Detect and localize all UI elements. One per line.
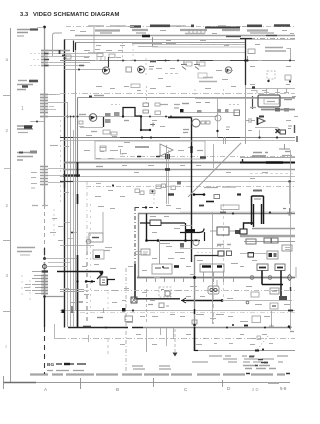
connector ladder 2 pins bbox=[40, 167, 48, 185]
function block box bbox=[95, 141, 205, 159]
transistor Q4 circle bbox=[192, 119, 200, 127]
left label block 4 blob bbox=[30, 151, 37, 154]
IC right label bbox=[284, 99, 292, 101]
dot y186 x113 bbox=[112, 184, 114, 186]
blobs on y213 bbox=[220, 212, 226, 214]
dark blob right y194 bbox=[237, 193, 241, 195]
left label block 4 dark dot bbox=[19, 152, 23, 154]
junction dot y296 bbox=[43, 295, 46, 298]
comp L dot bbox=[289, 80, 291, 82]
black corner wire right bbox=[244, 223, 254, 229]
dots on bottom edge bbox=[105, 327, 107, 329]
dash vertical x223 top bbox=[223, 89, 225, 98]
dash vertical x87 dark part bbox=[86, 240, 88, 324]
wire y127 bbox=[80, 127, 103, 129]
transistor circle x196 y242 bbox=[193, 240, 199, 246]
top text band row1 gray bbox=[88, 25, 226, 27]
corner to y350 wire bbox=[195, 350, 199, 352]
IC rect inner mark bbox=[92, 237, 99, 239]
label LP bbox=[78, 301, 83, 303]
label Hth hr on bottom edge bbox=[83, 326, 91, 328]
gray vertical x212 bbox=[212, 212, 214, 324]
black bar 1 bbox=[202, 265, 211, 267]
connector bus x44.4 dark segment bbox=[44, 248, 46, 255]
IC label IC201 bbox=[94, 95, 104, 97]
left label block 3 dark blob bbox=[29, 80, 38, 83]
svg-text:A: A bbox=[44, 387, 48, 392]
tiny labels scatter lower right bbox=[154, 244, 290, 322]
staircase black trace bbox=[123, 108, 150, 131]
vertical x146 dash bbox=[145, 58, 147, 76]
hatched IC box 1 bbox=[105, 113, 111, 117]
vertical pair x168 bbox=[168, 150, 170, 204]
wire y350.5 bbox=[195, 350, 295, 352]
bus y312 dashdot bbox=[60, 312, 295, 314]
comp L right bbox=[285, 75, 291, 80]
bus y116 bbox=[141, 116, 217, 118]
thick gray y228.5 bbox=[252, 228, 295, 230]
comp box x171 y186 bbox=[171, 186, 176, 190]
caption text mid1 bbox=[132, 366, 145, 369]
svg-text:C: C bbox=[184, 387, 188, 392]
black corner from box G bbox=[107, 280, 115, 286]
resistor box x143 y104 bbox=[143, 103, 149, 107]
transistor Q2 circle bbox=[138, 66, 145, 73]
TB box bbox=[214, 195, 220, 199]
dash vertical x30 bbox=[29, 280, 31, 300]
gray band y290 left bbox=[60, 290, 84, 292]
x72 dark segment bbox=[71, 306, 73, 313]
left label block 2 bbox=[17, 85, 33, 90]
wire y310 left cross tick bbox=[103, 308, 105, 313]
right edge dark marks bbox=[295, 125, 298, 142]
dashes y104 right bbox=[229, 104, 240, 106]
big rounded IC box right bbox=[258, 95, 280, 107]
dark blob x167 y169 bbox=[165, 168, 170, 171]
dotted diagonal leader bbox=[257, 336, 268, 350]
dot y310 x133 bbox=[132, 309, 134, 311]
box with black bars bbox=[200, 264, 224, 272]
comp boxes bottom row1 bbox=[135, 189, 140, 193]
video box top second line bbox=[180, 211, 295, 213]
tick x271 bbox=[269, 324, 274, 328]
black dot on edge x194 bbox=[193, 276, 196, 279]
junction cluster y240 bbox=[146, 240, 200, 242]
x77.5 black segments bbox=[77, 162, 79, 327]
svg-text:a: a bbox=[6, 57, 9, 62]
label S-t right bbox=[282, 155, 292, 157]
connector bus x44.4 upper bbox=[44, 27, 46, 206]
delay leads bbox=[210, 230, 240, 232]
box corner x120 bbox=[121, 149, 124, 154]
label Ja bbox=[290, 331, 294, 333]
transistor Q top small 1 bbox=[181, 61, 187, 70]
video box left edge x138 bbox=[138, 214, 140, 279]
label amp right bbox=[288, 126, 292, 129]
box G bbox=[100, 277, 107, 285]
svg-text:3.3: 3.3 bbox=[20, 12, 29, 18]
ladder 2 label TP bbox=[32, 205, 48, 207]
top right dash-dot y38 bbox=[240, 38, 295, 40]
dark blob right bbox=[235, 230, 240, 234]
relay dark blob bbox=[24, 125, 32, 128]
comp small below Q3 label bbox=[79, 126, 84, 128]
comp LP lead bbox=[247, 56, 249, 60]
ground symbol right bbox=[287, 208, 292, 215]
resistor pair right of Q4 bbox=[201, 121, 205, 124]
box x270 y303 bbox=[270, 303, 278, 309]
bottom rule tick C bbox=[153, 378, 155, 387]
circle comp x88 y241 bbox=[86, 239, 91, 244]
dashes y73 bbox=[165, 73, 180, 75]
arrow diagonal bbox=[97, 273, 103, 280]
transistor Q3 circle bbox=[89, 114, 97, 122]
comp row y131 box a bbox=[103, 130, 110, 134]
IC rect x89 y233 bbox=[89, 233, 103, 242]
wire y157 right bbox=[240, 157, 295, 159]
ref labels y190-208 bbox=[64, 191, 181, 209]
comps x251 y292 bbox=[251, 292, 259, 297]
comp box x161 y184 bbox=[162, 184, 166, 188]
transistor Q5 circle bbox=[225, 67, 231, 73]
wire relay to bus bbox=[30, 121, 44, 123]
gray vertical x73 bbox=[73, 130, 75, 327]
label LF bbox=[97, 317, 103, 319]
dash-dot y186 bbox=[86, 186, 295, 188]
dot y213 x233 bbox=[232, 212, 234, 214]
black square x180 bbox=[180, 109, 184, 113]
gray vertical x217 bbox=[217, 98, 219, 137]
gray vertical x271 bottom bbox=[271, 311, 273, 327]
label Hi right bbox=[182, 103, 189, 105]
wire y225.5 left bbox=[180, 225, 192, 227]
box x125 y316 bbox=[125, 316, 133, 322]
comp LP box bbox=[248, 49, 255, 54]
connector bus x44.4 dashed mid bbox=[44, 205, 46, 258]
ref labels right column bbox=[248, 61, 298, 131]
text y181 left dark bbox=[60, 181, 73, 183]
thick dashed rule above bottom bbox=[30, 373, 285, 375]
left label block 3 y80 bbox=[18, 80, 27, 82]
extra thick black y162 blobs bbox=[266, 161, 283, 164]
arrow head down bbox=[173, 353, 178, 357]
comp LP dot bbox=[246, 59, 248, 61]
ticks below video box edge bbox=[147, 278, 234, 282]
gray vertical x245.5 bbox=[245, 38, 247, 144]
dark comp y253 bbox=[248, 253, 254, 258]
triangle buffer bbox=[257, 118, 265, 125]
IC box notch bbox=[89, 96, 92, 98]
dot x152 y191 bbox=[151, 190, 153, 192]
cap comp y120 bbox=[246, 118, 255, 123]
label C4 bbox=[148, 304, 153, 306]
gray blob at very bottom bbox=[268, 382, 279, 384]
border corner dot bbox=[145, 206, 147, 208]
connector 3 text speckle bbox=[24, 285, 31, 291]
box cluster x152 y264 bbox=[152, 264, 172, 274]
svg-text:2: 2 bbox=[6, 203, 9, 208]
right edge cut marks bbox=[295, 267, 297, 278]
tie dot bbox=[71, 232, 73, 234]
comp box x126 bbox=[126, 67, 132, 72]
y116 junction dots bbox=[67, 116, 69, 118]
label 2SA bbox=[79, 114, 86, 116]
transistor Q3 wedge bbox=[91, 116, 96, 121]
legend line2 bbox=[47, 370, 84, 372]
label 3C rotated bbox=[183, 130, 189, 133]
left label block 2 dark blob bbox=[22, 85, 28, 87]
black vertical x135 bbox=[134, 264, 136, 299]
wire y127 right bbox=[255, 127, 278, 129]
transistor Q2 wedge bbox=[139, 68, 143, 72]
label 1_5 bbox=[91, 131, 97, 133]
small box bottom connector x192 bbox=[192, 320, 197, 324]
gray vertical x159 down bbox=[159, 240, 161, 264]
bus circles on y277 bbox=[250, 276, 254, 280]
top bus line y35.5 bbox=[75, 35, 295, 37]
inner label bbox=[267, 101, 275, 103]
label 12 on bus bbox=[150, 61, 156, 63]
dash vertical x108 low bbox=[107, 292, 109, 310]
ref labels y336-346 mid bbox=[120, 335, 267, 345]
IC box left edge x77.5 bbox=[77, 98, 79, 328]
dot x247 y302 bbox=[246, 301, 249, 304]
ref labels y146-152 bbox=[64, 147, 123, 151]
connector 3 pins left bbox=[32, 272, 44, 294]
bracket x152 bbox=[152, 37, 154, 47]
black component box right bbox=[252, 196, 264, 225]
arrowhead left bbox=[181, 298, 186, 303]
label P right bbox=[285, 151, 290, 153]
dark specks y357 bbox=[249, 356, 254, 358]
top text band row3 bbox=[100, 32, 274, 35]
trimmer pot 2 bbox=[275, 264, 285, 271]
wire y262 bbox=[48, 262, 70, 264]
black fuse blob bbox=[186, 229, 195, 232]
cable pair y44.5 bbox=[152, 44, 246, 46]
black tick x194 y310 bbox=[194, 309, 196, 314]
svg-text:B: B bbox=[116, 387, 119, 392]
MA label above black box bbox=[253, 190, 262, 192]
comp boxes bottom row2 bbox=[150, 190, 155, 194]
dash vertical x87 bbox=[86, 181, 88, 240]
dark segment top bus right bbox=[226, 36, 241, 38]
comp small below Q3 bbox=[79, 121, 83, 124]
relay label bbox=[18, 132, 28, 134]
video box top edge y213.5 bbox=[138, 213, 295, 215]
comp dashed box x267 bbox=[267, 71, 275, 79]
small box mark bbox=[257, 336, 261, 340]
svg-text:2 D: 2 D bbox=[252, 387, 259, 392]
wire y98 right bbox=[195, 98, 295, 100]
vertical lead x94 bbox=[93, 27, 95, 53]
box with dark squares bbox=[267, 251, 278, 259]
left label block 5 line3 bbox=[20, 254, 30, 256]
dot x217 y131 bbox=[216, 130, 218, 132]
bottom border rule bbox=[3, 382, 290, 384]
cable pair y47 bbox=[152, 46, 246, 48]
dashed box x159 bbox=[159, 287, 171, 297]
ref labels y302-320 bbox=[70, 301, 233, 319]
comp blob y157 x200 bbox=[200, 156, 206, 158]
bus y181 bbox=[60, 181, 295, 183]
dark blob y194 x168 bbox=[168, 193, 174, 195]
cluster dot bbox=[162, 266, 164, 268]
square comp S bbox=[234, 110, 240, 116]
comp cluster x93-104 bbox=[93, 250, 104, 259]
label AA y245 bbox=[217, 244, 231, 246]
box on y112 c bbox=[225, 109, 229, 113]
comp x267 dot bbox=[267, 80, 269, 82]
ref label scatter row y86 bbox=[96, 87, 236, 89]
comp box y318 bbox=[252, 316, 261, 323]
comp marks y104 mid bbox=[196, 102, 210, 104]
inner circles bbox=[210, 288, 213, 291]
trimmer 2 black lead bbox=[280, 271, 282, 298]
dash vertical x90 bbox=[90, 204, 92, 310]
junction blob y258 bbox=[43, 257, 46, 260]
ladder 0 dashed leads left bbox=[30, 54, 41, 66]
ref labels left mid bbox=[50, 219, 63, 241]
bottom text under transistors bbox=[199, 78, 217, 82]
connector ladder 1 pins bbox=[40, 95, 48, 117]
label under box bbox=[126, 322, 133, 324]
ladder 1 stubs right bbox=[48, 103, 70, 117]
T stubs below y88 bbox=[264, 89, 289, 93]
x290 dark segment bbox=[290, 287, 292, 291]
transistor Q5 wedge bbox=[227, 69, 231, 73]
ref labels top band fillers bbox=[70, 27, 294, 34]
short black x64 y184 bbox=[64, 183, 66, 188]
label 16 bbox=[226, 127, 230, 130]
black vertical x194.5 bottom bbox=[194, 327, 196, 351]
black box inner mark bbox=[254, 198, 261, 200]
dash-dot boundary y338.5 bbox=[60, 338, 295, 340]
dark tick above bbox=[199, 205, 204, 207]
tie y232 bbox=[70, 232, 78, 234]
connector 3 pin pads bbox=[41, 272, 48, 294]
ref labels y266-274 bbox=[82, 261, 257, 275]
T symbol top right bbox=[279, 144, 290, 149]
cross tick x88 boundary bbox=[88, 335, 90, 342]
caption text mid2 bbox=[159, 366, 171, 369]
MA box dark bbox=[280, 130, 286, 134]
x245.5 black top segment bbox=[245, 38, 247, 85]
transistor circle x218 bbox=[215, 115, 221, 121]
tiny text x137 y90 bbox=[137, 90, 141, 92]
connector ladder 0 pins bbox=[41, 51, 48, 66]
corner square with X bbox=[131, 297, 137, 303]
transistor Q1 wedge bbox=[104, 69, 108, 73]
dot y212 x270 bbox=[269, 211, 271, 213]
ref label scatter upper left bbox=[84, 50, 131, 61]
svg-text:D: D bbox=[227, 386, 231, 391]
transistor Q top small 2 bbox=[194, 61, 200, 70]
arrowhead bbox=[99, 272, 104, 277]
stub verticals below box bbox=[147, 328, 174, 352]
label y166 x96 bbox=[96, 166, 103, 168]
wire y296 right bbox=[45, 296, 65, 298]
curl symbol bbox=[217, 245, 221, 247]
dashed vertical x133 bbox=[132, 44, 134, 62]
dash-dot border x126 bbox=[125, 268, 127, 372]
ref labels mid band bbox=[96, 159, 268, 179]
junction dots y69 bbox=[78, 69, 80, 71]
inner corner black x73.5 bbox=[73, 41, 75, 53]
staircase junction dots bbox=[140, 115, 142, 117]
inner top corner mark bbox=[75, 43, 77, 51]
top text band row1 dark blobs bbox=[150, 24, 290, 27]
comp dark box x177 y181 bbox=[177, 181, 181, 185]
svg-text:3: 3 bbox=[6, 273, 9, 278]
left label block 4 bbox=[17, 153, 35, 161]
comp box y90 left bbox=[251, 91, 257, 94]
black S wire bbox=[180, 229, 205, 242]
bus y137 bbox=[60, 137, 295, 139]
label H bbox=[283, 208, 286, 210]
label mid y43 bbox=[132, 43, 176, 45]
big box left edge (black) bbox=[64, 40, 66, 328]
label row y187 bbox=[204, 186, 236, 189]
buffer top blob bbox=[259, 116, 264, 118]
lead up from box bbox=[216, 280, 218, 286]
dash-dot y93 bbox=[60, 93, 295, 95]
box on y112 b bbox=[217, 109, 221, 113]
label w y108 bbox=[250, 107, 256, 109]
dark dashes on dashed rule bbox=[246, 373, 290, 375]
bottom rule tick left bbox=[3, 376, 5, 389]
cluster dark blob bbox=[95, 255, 100, 258]
svg-text:BG: BG bbox=[47, 362, 54, 368]
elbow top left bbox=[53, 33, 63, 56]
y176 black knot bbox=[63, 174, 80, 176]
junction dot end of wire bbox=[221, 299, 224, 302]
mark x53 y145 bbox=[50, 145, 58, 147]
tie y238 bbox=[67, 238, 74, 240]
top bus line y39 bbox=[64, 39, 295, 41]
X blob x277 bbox=[276, 129, 280, 133]
top band dark blob x132 bbox=[130, 25, 141, 27]
svg-text:VIDEO SCHEMATIC DIAGRAM: VIDEO SCHEMATIC DIAGRAM bbox=[33, 12, 119, 18]
ladder 1 stub dots bbox=[49, 95, 56, 107]
dash vertical x154 bbox=[153, 194, 155, 204]
IC bottom thick edge bbox=[261, 109, 295, 111]
IC box in video amp bbox=[141, 249, 150, 255]
box on y112 a bbox=[197, 110, 202, 113]
label above corner bbox=[80, 31, 86, 33]
junction dots y137 bbox=[258, 136, 260, 138]
connector bus x44.4 black bottom bbox=[44, 296, 46, 327]
svg-text:1: 1 bbox=[21, 106, 24, 112]
text dashes y356 bbox=[209, 355, 288, 357]
dark blob right of cluster bbox=[174, 265, 179, 268]
big box bottom gray part bbox=[143, 327, 290, 329]
bottom rule dark segment bbox=[3, 382, 36, 384]
black wire y300.5 with arrow bbox=[186, 300, 222, 302]
black vertical x146 inside video box bbox=[146, 214, 148, 241]
dashed vertical x122 bbox=[122, 42, 124, 60]
ref labels y286-296 bbox=[64, 289, 239, 301]
dots on y350 wire bbox=[255, 350, 259, 352]
x278 lead down bbox=[277, 128, 279, 134]
black blob bottom left bbox=[62, 310, 66, 314]
dark blob on top bus bbox=[142, 35, 150, 38]
boundary corner left bbox=[55, 324, 62, 339]
hatched IC box 2 bbox=[114, 112, 120, 116]
ladder 2 stubs bbox=[48, 169, 64, 183]
trimmer pot 1 bbox=[257, 264, 268, 271]
label 4 bbox=[166, 305, 169, 307]
